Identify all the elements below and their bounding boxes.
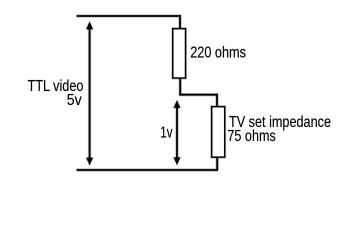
svg-text:220 ohms: 220 ohms [190, 44, 246, 61]
wire horizontal jog to R2 [179, 93, 218, 96]
resistor R2 75 ohms body [212, 107, 225, 157]
svg-text:75 ohms: 75 ohms [227, 128, 276, 145]
svg-text:5v: 5v [67, 92, 82, 109]
wire drop to R2 [215, 94, 218, 108]
measurement arrow 1v bottom head [174, 157, 181, 165]
wire drop from top rail to R1 [178, 15, 181, 29]
measurement arrow 1v stem [175, 105, 178, 160]
measurement arrow 5v stem [88, 27, 91, 160]
wire R1 bottom lead [178, 78, 181, 96]
resistor R1 220 ohms body [173, 29, 186, 78]
wire top rail [77, 14, 181, 17]
measurement arrow 5v top head [86, 22, 93, 30]
svg-text:1v: 1v [160, 124, 172, 141]
measurement arrow 1v top head [174, 100, 181, 108]
measurement arrow 5v bottom head [86, 158, 93, 166]
wire R2 bottom lead [215, 157, 218, 170]
wire bottom rail [77, 168, 219, 171]
